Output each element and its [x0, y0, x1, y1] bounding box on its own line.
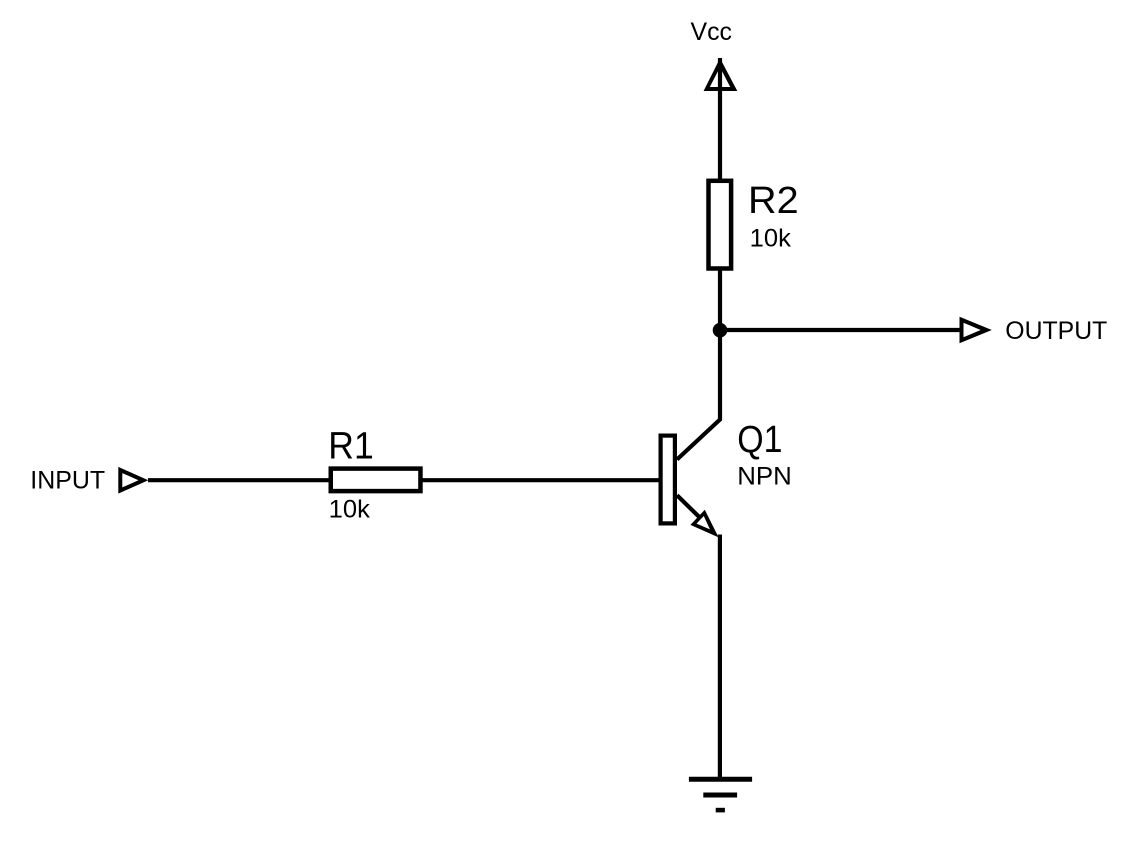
transistor Q1 base bar [661, 436, 675, 524]
svg-text:OUTPUT: OUTPUT [1005, 317, 1107, 345]
ground top bar [689, 777, 752, 782]
wire emitter vertical to ground [718, 535, 722, 780]
transistor Q1 emitter arrowhead [690, 510, 718, 538]
svg-text:10k: 10k [750, 224, 792, 252]
wire output: node to output arrow [720, 328, 960, 332]
resistor R2 body [709, 181, 732, 269]
ground middle bar [703, 793, 737, 798]
svg-text:Vcc: Vcc [691, 18, 733, 46]
node output junction dot [713, 323, 728, 338]
svg-text:R2: R2 [748, 180, 799, 222]
svg-text:10k: 10k [329, 495, 371, 523]
svg-text:INPUT: INPUT [30, 467, 105, 495]
input arrow [118, 467, 148, 494]
wire base: input arrow tip to transistor base bar [148, 478, 660, 482]
resistor R1 body [331, 469, 421, 492]
power symbol Vcc arrow [704, 58, 738, 91]
svg-text:R1: R1 [328, 425, 373, 467]
wire collector: diagonal from bar up to vertical riser through node to R2 bottom [677, 268, 720, 460]
output arrow [960, 317, 992, 344]
svg-text:NPN: NPN [737, 463, 792, 491]
ground bottom bar [716, 808, 725, 813]
wire Vcc: through arrow down to R2 top [718, 58, 722, 182]
wire emitter diagonal from bar into arrowhead [677, 495, 700, 518]
svg-text:Q1: Q1 [737, 419, 782, 461]
